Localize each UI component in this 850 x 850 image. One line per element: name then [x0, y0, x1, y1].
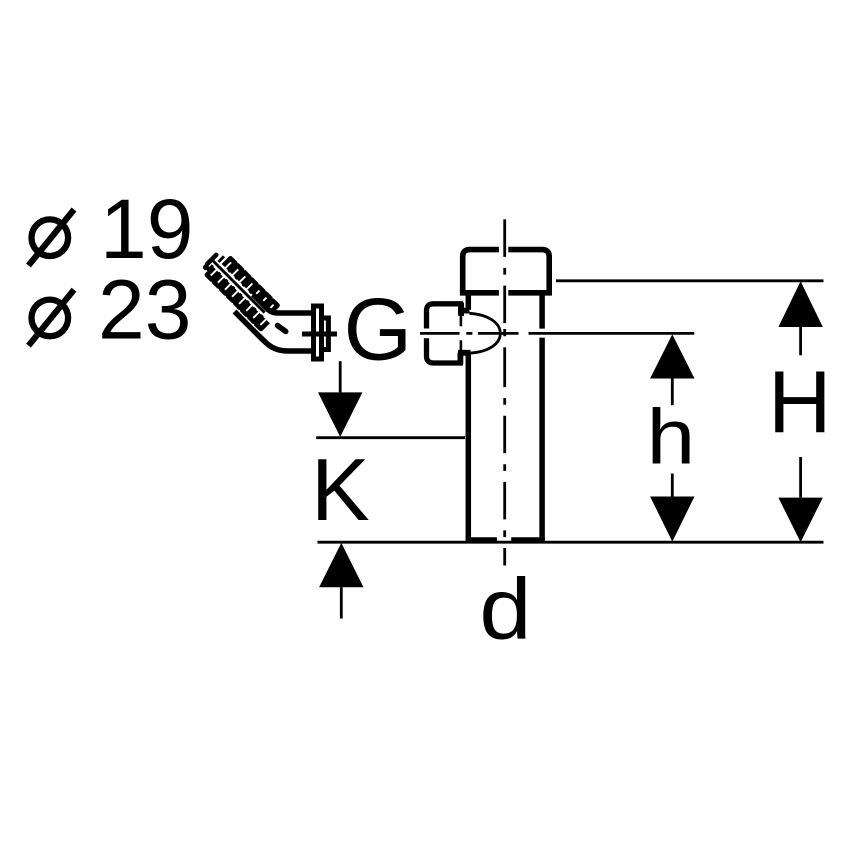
upper corrugation brackets — [223, 258, 277, 312]
socket-pipe thread step bottom — [458, 353, 471, 364]
K dimension arrow down — [318, 392, 362, 437]
elbow outer bottom wall — [235, 312, 314, 352]
pipe cap bottom edge — [460, 290, 552, 296]
pipe left wall — [466, 293, 472, 540]
K dimension arrow up (below bottom line) — [319, 543, 363, 587]
hose tip cap — [207, 255, 216, 264]
svg-text:d: d — [479, 562, 531, 658]
h dimension arrow up — [650, 334, 694, 378]
h dimension arrow down — [650, 497, 694, 542]
union nut outline — [314, 306, 322, 359]
lower corrugation teeth — [207, 265, 262, 320]
bottom extension line — [318, 541, 824, 544]
branch socket top — [427, 304, 464, 329]
K extension line — [316, 436, 465, 439]
dia symbol row2 — [29, 290, 75, 346]
H dimension arrow down — [778, 498, 822, 543]
branch socket bottom — [427, 338, 464, 363]
hose tip bead — [202, 263, 210, 271]
elbow outer top wall — [253, 295, 312, 314]
hose section centerline — [212, 260, 265, 313]
pipe right wall — [539, 293, 545, 540]
svg-text:h: h — [647, 393, 696, 481]
svg-text:H: H — [768, 352, 832, 451]
svg-text:K: K — [311, 440, 370, 539]
corrugated hose (45 deg) — [201, 248, 282, 329]
lower corrugation brackets — [207, 268, 268, 329]
H dimension arrow up — [778, 281, 822, 327]
pipe cap — [463, 250, 550, 293]
elbow inner wall dash — [278, 326, 286, 332]
svg-text:G: G — [344, 279, 412, 378]
union nut step block — [322, 318, 329, 350]
bore edge thin top — [460, 316, 463, 326]
socket-pipe thread step top — [458, 303, 470, 317]
bore bell arc — [470, 313, 501, 353]
pipe bottom edge — [466, 537, 545, 543]
upper corrugation teeth — [218, 256, 274, 312]
h extension line — [529, 332, 695, 335]
horizontal centerline — [420, 332, 519, 335]
bore edge thin bottom — [460, 340, 463, 350]
svg-text:23: 23 — [98, 263, 191, 357]
dia symbol row1 — [29, 210, 75, 266]
vertical centerline — [503, 219, 506, 565]
union joint bar — [302, 332, 337, 337]
H extension line top — [556, 279, 824, 282]
